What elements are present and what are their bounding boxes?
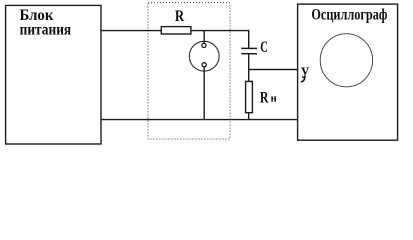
neon lamp top electrode [202,43,206,47]
svg-text:н: н [271,94,277,105]
wire: node B to oscilloscope Y input [248,69,298,71]
svg-text:R: R [175,8,185,25]
oscilloscope box "Осциллограф" [298,4,398,140]
dashed enclosure around R and neon lamp [148,3,230,139]
svg-text:R: R [260,89,269,106]
wire: resistor R to node A (top rail) [191,30,249,32]
wire: capacitor C to node B [248,54,250,70]
wire: resistor Rн to bottom rail [248,113,250,120]
wire: node B down to resistor Rн [248,70,250,82]
neon lamp bottom electrode [202,63,206,67]
svg-text:Осциллограф: Осциллограф [311,6,387,23]
svg-text:С: С [260,39,268,56]
label Rн [260,89,277,106]
svg-text:питания: питания [20,22,72,39]
wire: bottom lead of neon lamp to bottom rail [203,67,205,120]
resistor Rн [246,81,253,112]
bottom rail wire [101,119,298,121]
power supply block "Блок питания" [6,5,101,144]
neon lamp L1 envelope [189,41,219,71]
capacitor C [241,48,257,53]
resistor R [161,27,191,34]
wire: power supply output to resistor R [101,30,162,32]
wire: node A down to capacitor C [248,30,250,48]
oscilloscope CRT screen [320,34,372,87]
wire: top lead of neon lamp [203,31,205,44]
label У (Y input) [301,65,310,82]
